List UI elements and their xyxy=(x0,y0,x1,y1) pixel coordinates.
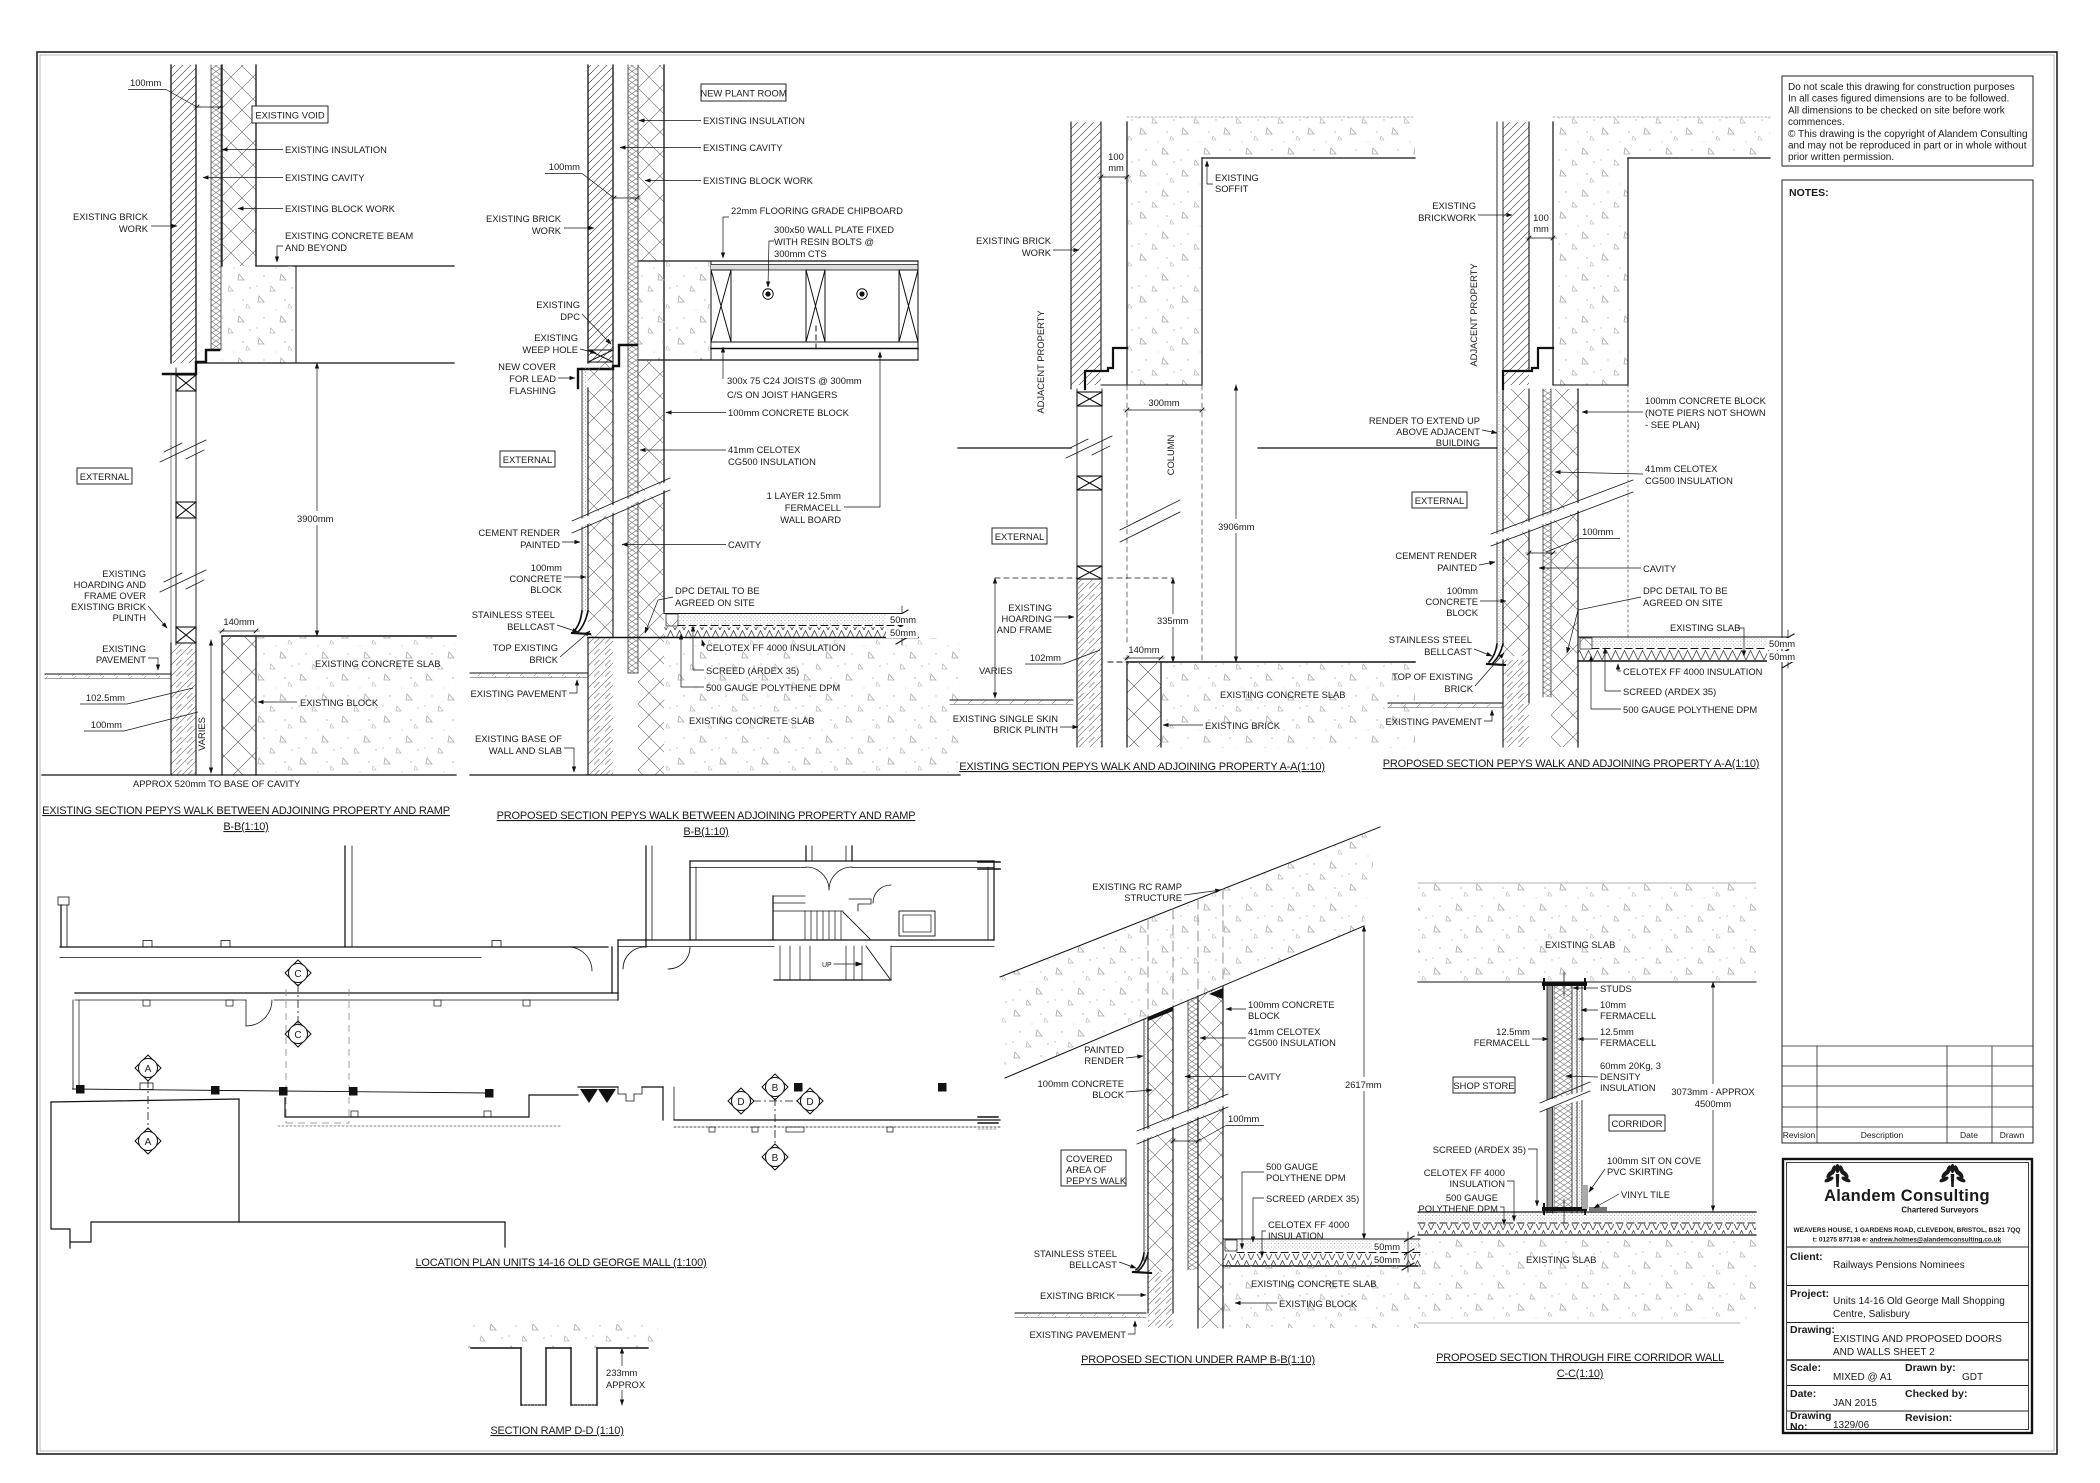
pavement xyxy=(1015,1313,1146,1318)
existing concrete slab xyxy=(256,637,456,775)
svg-text:CELOTEX FF 4000 INSULATION: CELOTEX FF 4000 INSULATION xyxy=(1623,666,1762,677)
300mm dim xyxy=(1127,409,1202,411)
existing void floor line xyxy=(256,265,454,267)
svg-text:WORK: WORK xyxy=(119,223,149,234)
svg-text:Revision: Revision xyxy=(1783,1130,1816,1140)
svg-text:Drawn: Drawn xyxy=(2000,1130,2025,1140)
svg-text:APPROX 520mm TO BASE OF CAVITY: APPROX 520mm TO BASE OF CAVITY xyxy=(133,778,301,789)
svg-text:PEPYS WALK: PEPYS WALK xyxy=(1066,1175,1127,1186)
svg-text:BLOCK: BLOCK xyxy=(1092,1089,1125,1100)
svg-text:PROPOSED SECTION UNDER RAMP B-: PROPOSED SECTION UNDER RAMP B-B(1:10) xyxy=(1081,1354,1315,1366)
svg-text:BRICK: BRICK xyxy=(529,654,558,665)
existing concrete slab/soffit xyxy=(1127,117,1415,158)
svg-text:50mm: 50mm xyxy=(1374,1241,1400,1252)
svg-text:Chartered Surveyors: Chartered Surveyors xyxy=(1901,1206,1979,1215)
50mm dims xyxy=(1787,630,1789,668)
svg-text:300mm: 300mm xyxy=(1148,397,1179,408)
svg-text:EXISTING BLOCK: EXISTING BLOCK xyxy=(1279,1298,1358,1309)
svg-text:EXISTING PAVEMENT: EXISTING PAVEMENT xyxy=(470,688,567,699)
svg-text:50mm: 50mm xyxy=(1769,651,1795,662)
vertical wall to section B title xyxy=(344,846,346,947)
entrance doors xyxy=(578,1086,618,1088)
dashed works zone xyxy=(286,989,349,1123)
svg-text:50mm: 50mm xyxy=(890,614,916,625)
svg-text:CONCRETE: CONCRETE xyxy=(509,573,562,584)
svg-text:INSULATION: INSULATION xyxy=(1449,1178,1505,1189)
svg-text:B-B(1:10): B-B(1:10) xyxy=(223,821,268,833)
svg-text:DPC DETAIL TO BE: DPC DETAIL TO BE xyxy=(1643,585,1728,596)
svg-text:CAVITY: CAVITY xyxy=(1248,1071,1282,1082)
svg-text:EXISTING SLAB: EXISTING SLAB xyxy=(1670,622,1740,633)
pepys walk colonnade line with column squares xyxy=(72,1083,947,1098)
svg-text:CG500 INSULATION: CG500 INSULATION xyxy=(1645,475,1733,486)
svg-text:Scale:: Scale: xyxy=(1790,1362,1821,1374)
svg-text:335mm: 335mm xyxy=(1157,615,1188,626)
svg-text:12.5mm: 12.5mm xyxy=(1600,1026,1634,1037)
insulation xyxy=(1543,389,1551,697)
svg-text:100mm CONCRETE: 100mm CONCRETE xyxy=(1038,1078,1124,1089)
inner block leaf xyxy=(1551,389,1578,747)
svg-text:All dimensions to be checked o: All dimensions to be checked on site bef… xyxy=(1788,105,2006,116)
pavement xyxy=(470,673,588,678)
svg-text:500 GAUGE POLYTHENE DPM: 500 GAUGE POLYTHENE DPM xyxy=(706,682,840,693)
svg-text:SCREED (ARDEX 35): SCREED (ARDEX 35) xyxy=(706,665,799,676)
svg-text:EXISTING SECTION PEPYS WALK BE: EXISTING SECTION PEPYS WALK BETWEEN ADJO… xyxy=(42,805,450,817)
svg-text:22mm FLOORING GRADE CHIPBOARD: 22mm FLOORING GRADE CHIPBOARD xyxy=(731,205,903,216)
svg-text:100mm: 100mm xyxy=(549,161,580,172)
left end wall stub xyxy=(60,905,62,947)
inner 100mm block xyxy=(1198,986,1223,1328)
corridor lower wall xyxy=(75,992,618,994)
svg-text:100mm: 100mm xyxy=(91,719,122,730)
edge continuation stubs xyxy=(978,862,1000,869)
svg-text:CELOTEX FF 4000: CELOTEX FF 4000 xyxy=(1424,1167,1505,1178)
svg-text:100mm CONCRETE BLOCK: 100mm CONCRETE BLOCK xyxy=(728,407,850,418)
svg-text:2617mm: 2617mm xyxy=(1345,1079,1382,1090)
svg-text:FLASHING: FLASHING xyxy=(509,385,556,396)
svg-text:140mm: 140mm xyxy=(223,616,254,627)
existing brick below xyxy=(1148,1272,1173,1328)
svg-text:NOTES:: NOTES: xyxy=(1789,187,1829,199)
svg-text:ABOVE ADJACENT: ABOVE ADJACENT xyxy=(1396,426,1480,437)
svg-text:PAVEMENT: PAVEMENT xyxy=(96,654,146,665)
svg-text:A: A xyxy=(145,1137,152,1148)
svg-text:140mm: 140mm xyxy=(1128,644,1159,655)
svg-text:Units 14-16 Old George Mall Sh: Units 14-16 Old George Mall Shopping xyxy=(1833,1296,2005,1307)
hoarding xyxy=(1076,389,1078,578)
svg-text:- SEE PLAN): - SEE PLAN) xyxy=(1645,419,1700,430)
svg-text:FERMACELL: FERMACELL xyxy=(1600,1037,1656,1048)
fire wall xyxy=(1547,982,1553,1213)
svg-text:EXISTING CAVITY: EXISTING CAVITY xyxy=(285,172,365,183)
labels section G xyxy=(1029,881,1376,1366)
screed floor xyxy=(1225,1240,1237,1251)
bellcast xyxy=(1136,1253,1148,1271)
shopfront stepped wall xyxy=(285,1095,578,1117)
svg-text:EXISTING PAVEMENT: EXISTING PAVEMENT xyxy=(1385,716,1482,727)
labels section C xyxy=(953,151,1346,773)
brick wall leaf xyxy=(171,65,196,363)
svg-text:SECTION RAMP D-D (1:10): SECTION RAMP D-D (1:10) xyxy=(490,1425,623,1437)
svg-text:PROPOSED SECTION PEPYS WALK AN: PROPOSED SECTION PEPYS WALK AND ADJOININ… xyxy=(1383,758,1760,770)
svg-text:commences.: commences. xyxy=(1788,117,1845,128)
svg-text:SHOP STORE: SHOP STORE xyxy=(1453,1080,1514,1091)
insulation xyxy=(1188,996,1198,1270)
bellcast xyxy=(1489,644,1503,663)
svg-text:FERMACELL: FERMACELL xyxy=(1600,1010,1656,1021)
3073mm dim xyxy=(1712,982,1714,1211)
svg-text:VINYL TILE: VINYL TILE xyxy=(1621,1189,1670,1200)
svg-text:PAINTED: PAINTED xyxy=(520,539,560,550)
svg-text:EXISTING CONCRETE SLAB: EXISTING CONCRETE SLAB xyxy=(315,658,441,669)
svg-text:41mm CELOTEX: 41mm CELOTEX xyxy=(1645,463,1718,474)
svg-text:EXISTING BLOCK WORK: EXISTING BLOCK WORK xyxy=(703,175,814,186)
svg-text:DPC DETAIL TO BE: DPC DETAIL TO BE xyxy=(675,585,760,596)
svg-text:STUDS: STUDS xyxy=(1600,983,1632,994)
svg-text:SCREED (ARDEX 35): SCREED (ARDEX 35) xyxy=(1433,1144,1526,1155)
svg-text:In all cases figured dimension: In all cases figured dimensions are to b… xyxy=(1788,94,2009,105)
bottom slab xyxy=(1418,1236,1756,1323)
svg-text:100: 100 xyxy=(1533,212,1549,223)
svg-text:EXISTING BRICK: EXISTING BRICK xyxy=(71,601,147,612)
adjacent roof line xyxy=(958,447,1071,449)
svg-text:EXISTING BASE OF: EXISTING BASE OF xyxy=(475,733,562,744)
svg-text:STAINLESS STEEL: STAINLESS STEEL xyxy=(472,609,555,620)
svg-text:EXISTING AND PROPOSED DOORS: EXISTING AND PROPOSED DOORS xyxy=(1833,1334,2002,1345)
break symbol xyxy=(572,484,670,527)
top slab xyxy=(1418,883,1756,982)
svg-text:t: 01275 877138 e: andrew.hol: t: 01275 877138 e: andrew.holmes@alandem… xyxy=(1813,1237,2002,1244)
svg-text:Drawing:: Drawing: xyxy=(1790,1324,1835,1336)
break symbol xyxy=(160,440,206,462)
svg-text:© This drawing is the copyrigh: © This drawing is the copyright of Aland… xyxy=(1788,129,2028,140)
lower wall continuation to stair xyxy=(618,939,994,941)
svg-text:100mm: 100mm xyxy=(1228,1113,1259,1124)
svg-text:EXISTING SLAB: EXISTING SLAB xyxy=(1545,939,1615,950)
2617mm dim xyxy=(1363,926,1365,1239)
svg-text:EXISTING VOID: EXISTING VOID xyxy=(255,110,325,121)
svg-text:12.5mm: 12.5mm xyxy=(1496,1026,1530,1037)
svg-text:SCREED (ARDEX 35): SCREED (ARDEX 35) xyxy=(1266,1193,1359,1204)
svg-text:RENDER: RENDER xyxy=(1084,1055,1124,1066)
svg-text:BRICK: BRICK xyxy=(1444,683,1473,694)
svg-text:EXISTING: EXISTING xyxy=(102,643,146,654)
svg-text:EXISTING PAVEMENT: EXISTING PAVEMENT xyxy=(1029,1329,1126,1340)
svg-text:CAVITY: CAVITY xyxy=(1643,563,1677,574)
flashing xyxy=(1503,348,1553,389)
svg-text:AREA OF: AREA OF xyxy=(1066,1164,1107,1175)
small door right xyxy=(873,885,891,903)
svg-text:CONCRETE: CONCRETE xyxy=(1425,596,1478,607)
svg-text:B-B(1:10): B-B(1:10) xyxy=(683,826,728,838)
svg-text:PAINTED: PAINTED xyxy=(1084,1044,1124,1055)
svg-text:INSULATION: INSULATION xyxy=(1268,1230,1324,1241)
svg-text:B: B xyxy=(772,1153,779,1164)
svg-text:CELOTEX FF 4000 INSULATION: CELOTEX FF 4000 INSULATION xyxy=(706,642,845,653)
svg-text:DENSITY: DENSITY xyxy=(1600,1071,1641,1082)
svg-text:PROPOSED SECTION PEPYS WALK BE: PROPOSED SECTION PEPYS WALK BETWEEN ADJO… xyxy=(497,810,916,822)
svg-text:LOCATION PLAN UNITS 14-16 OLD: LOCATION PLAN UNITS 14-16 OLD GEORGE MAL… xyxy=(416,1257,707,1269)
joists with hangers xyxy=(711,270,918,342)
svg-text:NEW COVER: NEW COVER xyxy=(498,361,556,372)
section markers A A xyxy=(135,1055,161,1154)
svg-text:INSULATION: INSULATION xyxy=(1600,1082,1656,1093)
svg-text:41mm CELOTEX: 41mm CELOTEX xyxy=(728,444,801,455)
svg-text:AGREED ON SITE: AGREED ON SITE xyxy=(675,597,755,608)
svg-text:3906mm: 3906mm xyxy=(1218,521,1255,532)
svg-text:BELLCAST: BELLCAST xyxy=(1424,646,1472,657)
svg-text:EXISTING SINGLE SKIN: EXISTING SINGLE SKIN xyxy=(953,713,1058,724)
svg-text:WORK: WORK xyxy=(532,225,562,236)
floor build-up xyxy=(1418,1211,1756,1213)
door arc on lower corridor wall xyxy=(246,1000,272,1026)
svg-text:Description: Description xyxy=(1861,1130,1904,1140)
concrete block leaf below DPC xyxy=(588,363,613,637)
svg-text:POLYTHENE DPM: POLYTHENE DPM xyxy=(1266,1172,1346,1183)
svg-text:300x50 WALL PLATE FIXED: 300x50 WALL PLATE FIXED xyxy=(774,224,894,235)
svg-text:VARIES: VARIES xyxy=(979,665,1013,676)
svg-text:Alandem Consulting: Alandem Consulting xyxy=(1824,1187,1990,1205)
svg-text:500 GAUGE: 500 GAUGE xyxy=(1446,1192,1498,1203)
svg-text:ADJACENT PROPERTY: ADJACENT PROPERTY xyxy=(1468,263,1479,367)
svg-text:TOP EXISTING: TOP EXISTING xyxy=(493,642,558,653)
335mm dim xyxy=(1172,578,1174,662)
svg-text:1329/06: 1329/06 xyxy=(1833,1420,1870,1431)
notes box xyxy=(1782,180,2033,1143)
cupboard xyxy=(899,911,935,936)
pavement xyxy=(950,700,1073,705)
svg-text:CAVITY: CAVITY xyxy=(728,539,762,550)
svg-text:102mm: 102mm xyxy=(1030,652,1061,663)
existing brick wall xyxy=(1071,122,1101,385)
existing block column xyxy=(222,636,256,775)
section markers B D D B xyxy=(728,1074,823,1170)
svg-text:C: C xyxy=(294,1030,301,1041)
50mm dims xyxy=(1407,1232,1409,1272)
svg-text:100mm: 100mm xyxy=(1447,585,1478,596)
hidden wall lines above xyxy=(1148,889,1223,1016)
svg-text:C/S ON JOIST HANGERS: C/S ON JOIST HANGERS xyxy=(727,389,837,400)
svg-text:STAINLESS STEEL: STAINLESS STEEL xyxy=(1389,634,1472,645)
svg-text:BLOCK: BLOCK xyxy=(1248,1010,1281,1021)
existing slab xyxy=(1223,1266,1420,1328)
svg-text:BELLCAST: BELLCAST xyxy=(1069,1259,1117,1270)
break symbol 2 xyxy=(160,570,206,592)
svg-text:FERMACELL: FERMACELL xyxy=(1474,1037,1530,1048)
section markers C C xyxy=(285,960,311,1047)
lead flashing step xyxy=(163,350,219,374)
svg-text:100mm: 100mm xyxy=(531,562,562,573)
svg-text:EXISTING SECTION PEPYS WALK AN: EXISTING SECTION PEPYS WALK AND ADJOININ… xyxy=(959,761,1325,773)
svg-text:UP: UP xyxy=(822,962,832,969)
svg-text:PROPOSED SECTION THROUGH FIRE: PROPOSED SECTION THROUGH FIRE CORRIDOR W… xyxy=(1436,1352,1724,1364)
svg-text:ADJACENT PROPERTY: ADJACENT PROPERTY xyxy=(1035,310,1046,414)
svg-text:EXISTING CONCRETE SLAB: EXISTING CONCRETE SLAB xyxy=(689,715,815,726)
svg-text:50mm: 50mm xyxy=(1769,638,1795,649)
svg-text:POLYTHENE DPM: POLYTHENE DPM xyxy=(1418,1203,1498,1214)
svg-text:VARIES: VARIES xyxy=(196,717,207,751)
stainless steel bellcast xyxy=(574,611,588,632)
svg-text:BRICK PLINTH: BRICK PLINTH xyxy=(993,724,1058,735)
svg-text:TOP OF EXISTING: TOP OF EXISTING xyxy=(1392,671,1473,682)
logo tree right xyxy=(1939,1164,1967,1187)
svg-text:EXTERNAL: EXTERNAL xyxy=(80,471,130,482)
svg-text:Centre, Salisbury: Centre, Salisbury xyxy=(1833,1309,1910,1320)
notches under lower wall xyxy=(143,1000,150,1006)
logo tree left xyxy=(1824,1164,1852,1187)
stair room walls xyxy=(690,860,994,862)
svg-text:CEMENT RENDER: CEMENT RENDER xyxy=(478,527,560,538)
svg-text:41mm CELOTEX: 41mm CELOTEX xyxy=(1248,1026,1321,1037)
svg-text:50mm: 50mm xyxy=(1374,1254,1400,1265)
svg-text:WEEP HOLE: WEEP HOLE xyxy=(522,344,578,355)
svg-text:WEAVERS HOUSE, 1 GARDENS ROAD,: WEAVERS HOUSE, 1 GARDENS ROAD, CLEVEDON,… xyxy=(1794,1227,2021,1234)
pavement xyxy=(45,674,171,679)
labels section D xyxy=(1369,200,1767,770)
svg-text:CG500 INSULATION: CG500 INSULATION xyxy=(728,456,816,467)
svg-text:300x 75 C24 JOISTS @ 300mm: 300x 75 C24 JOISTS @ 300mm xyxy=(727,375,862,386)
svg-text:Client:: Client: xyxy=(1790,1251,1823,1263)
pavement xyxy=(1388,703,1503,708)
svg-text:HOARDING: HOARDING xyxy=(1001,613,1052,624)
painted render strip xyxy=(1144,1017,1148,1261)
svg-text:prior written permission.: prior written permission. xyxy=(1788,152,1894,163)
svg-text:Date:: Date: xyxy=(1790,1388,1816,1400)
svg-text:GDT: GDT xyxy=(1962,1372,1983,1383)
existing block work leaf xyxy=(222,65,256,266)
svg-text:10mm: 10mm xyxy=(1600,999,1626,1010)
floor screed build-up xyxy=(666,614,678,626)
svg-text:EXTERNAL: EXTERNAL xyxy=(503,454,553,465)
brick plinth xyxy=(1077,579,1102,747)
title block xyxy=(1783,1159,2032,1433)
pvc skirting xyxy=(1582,1185,1588,1209)
existing insulation strip xyxy=(211,65,221,350)
lead flashing + weep hole xyxy=(578,345,637,388)
insulation strip xyxy=(628,65,638,673)
svg-text:COLUMN: COLUMN xyxy=(1165,435,1176,476)
dotted column line xyxy=(1627,385,1629,637)
140mm dim xyxy=(1127,657,1161,659)
svg-text:AND BEYOND: AND BEYOND xyxy=(285,242,347,253)
render strip xyxy=(1497,392,1503,648)
svg-text:EXISTING: EXISTING xyxy=(1008,602,1052,613)
existing brick below xyxy=(588,638,613,775)
svg-text:JAN 2015: JAN 2015 xyxy=(1833,1398,1877,1409)
svg-text:COVERED: COVERED xyxy=(1066,1153,1113,1164)
svg-text:EXISTING: EXISTING xyxy=(536,299,580,310)
svg-text:NEW PLANT ROOM: NEW PLANT ROOM xyxy=(700,88,786,99)
svg-text:3073mm - APPROX: 3073mm - APPROX xyxy=(1671,1086,1755,1097)
svg-text:100mm CONCRETE: 100mm CONCRETE xyxy=(1248,999,1334,1010)
140mm dimension xyxy=(222,630,256,632)
outer block leaf xyxy=(1503,389,1529,656)
svg-text:PVC SKIRTING: PVC SKIRTING xyxy=(1607,1166,1673,1177)
outer 100mm block xyxy=(1148,1007,1173,1272)
svg-text:100: 100 xyxy=(1108,151,1124,162)
break symbol xyxy=(1137,1100,1228,1138)
svg-text:500 GAUGE POLYTHENE DPM: 500 GAUGE POLYTHENE DPM xyxy=(1623,704,1757,715)
svg-text:mm: mm xyxy=(1533,223,1549,234)
svg-text:3900mm: 3900mm xyxy=(297,513,334,524)
screed floor xyxy=(1580,638,1592,649)
3906mm dim xyxy=(1235,385,1237,662)
resin bolts xyxy=(763,289,773,299)
svg-text:FERMACELL: FERMACELL xyxy=(785,502,841,513)
svg-text:50mm: 50mm xyxy=(890,627,916,638)
svg-text:EXISTING INSULATION: EXISTING INSULATION xyxy=(285,144,387,155)
svg-text:No:: No: xyxy=(1790,1421,1808,1433)
svg-text:EXISTING: EXISTING xyxy=(1432,200,1476,211)
stair room double door xyxy=(805,846,807,861)
vertical wall x648 xyxy=(645,846,647,947)
svg-text:SOFFIT: SOFFIT xyxy=(1215,183,1249,194)
svg-text:CG500 INSULATION: CG500 INSULATION xyxy=(1248,1037,1336,1048)
left link wall xyxy=(72,1000,74,1089)
svg-text:AND FRAME: AND FRAME xyxy=(997,624,1052,635)
svg-text:EXISTING: EXISTING xyxy=(102,568,146,579)
svg-text:RENDER TO EXTEND UP: RENDER TO EXTEND UP xyxy=(1369,415,1480,426)
svg-text:EXISTING BRICK: EXISTING BRICK xyxy=(1205,720,1281,731)
VARIES dimension xyxy=(210,640,212,773)
svg-text:EXTERNAL: EXTERNAL xyxy=(995,531,1045,542)
svg-text:Railways Pensions Nominees: Railways Pensions Nominees xyxy=(1833,1260,1965,1271)
svg-text:EXISTING CAVITY: EXISTING CAVITY xyxy=(703,142,783,153)
VARIES dim xyxy=(994,578,996,698)
svg-text:233mm: 233mm xyxy=(606,1367,637,1378)
svg-text:FOR LEAD: FOR LEAD xyxy=(509,373,556,384)
svg-text:A: A xyxy=(145,1064,152,1075)
disclaimer box xyxy=(1782,76,2033,166)
break symbol xyxy=(1491,486,1633,540)
svg-text:EXISTING RC RAMP: EXISTING RC RAMP xyxy=(1092,881,1182,892)
cement render strip xyxy=(582,368,588,613)
svg-text:EXISTING BRICK: EXISTING BRICK xyxy=(486,213,562,224)
svg-text:500 GAUGE: 500 GAUGE xyxy=(1266,1161,1318,1172)
partition stub xyxy=(849,899,871,911)
svg-text:FRAME OVER: FRAME OVER xyxy=(84,590,146,601)
svg-text:EXISTING: EXISTING xyxy=(1215,172,1259,183)
labels section A xyxy=(42,77,450,833)
svg-text:HOARDING AND: HOARDING AND xyxy=(74,579,147,590)
svg-text:Project:: Project: xyxy=(1790,1288,1829,1300)
svg-text:BUILDING: BUILDING xyxy=(1436,437,1480,448)
svg-text:60mm 20Kg, 3: 60mm 20Kg, 3 xyxy=(1600,1060,1661,1071)
svg-text:mm: mm xyxy=(1108,162,1124,173)
svg-text:APPROX: APPROX xyxy=(606,1379,646,1390)
svg-text:100mm CONCRETE BLOCK: 100mm CONCRETE BLOCK xyxy=(1645,395,1767,406)
svg-text:WALL BOARD: WALL BOARD xyxy=(780,514,841,525)
svg-text:CORRIDOR: CORRIDOR xyxy=(1611,1118,1662,1129)
svg-text:and may not be reproduced in p: and may not be reproduced in part or in … xyxy=(1788,141,2027,152)
svg-text:AND WALLS SHEET 2: AND WALLS SHEET 2 xyxy=(1833,1347,1935,1358)
svg-text:4500mm: 4500mm xyxy=(1695,1098,1732,1109)
svg-text:WITH RESIN BOLTS @: WITH RESIN BOLTS @ xyxy=(774,236,874,247)
svg-text:CEMENT RENDER: CEMENT RENDER xyxy=(1395,550,1477,561)
mall lower wall xyxy=(674,1119,1000,1121)
upper stair flight xyxy=(773,895,805,897)
svg-text:BLOCK: BLOCK xyxy=(1446,607,1479,618)
break xyxy=(1540,1094,1590,1106)
svg-text:300mm CTS: 300mm CTS xyxy=(774,248,827,259)
stud channels xyxy=(1544,982,1585,986)
svg-text:DPC: DPC xyxy=(560,311,580,322)
shop unit outline xyxy=(51,1087,1000,1248)
svg-text:WORK: WORK xyxy=(1022,247,1052,258)
column dashed lines xyxy=(1126,385,1128,662)
svg-text:EXISTING BLOCK WORK: EXISTING BLOCK WORK xyxy=(285,203,396,214)
existing slab xyxy=(664,638,960,775)
